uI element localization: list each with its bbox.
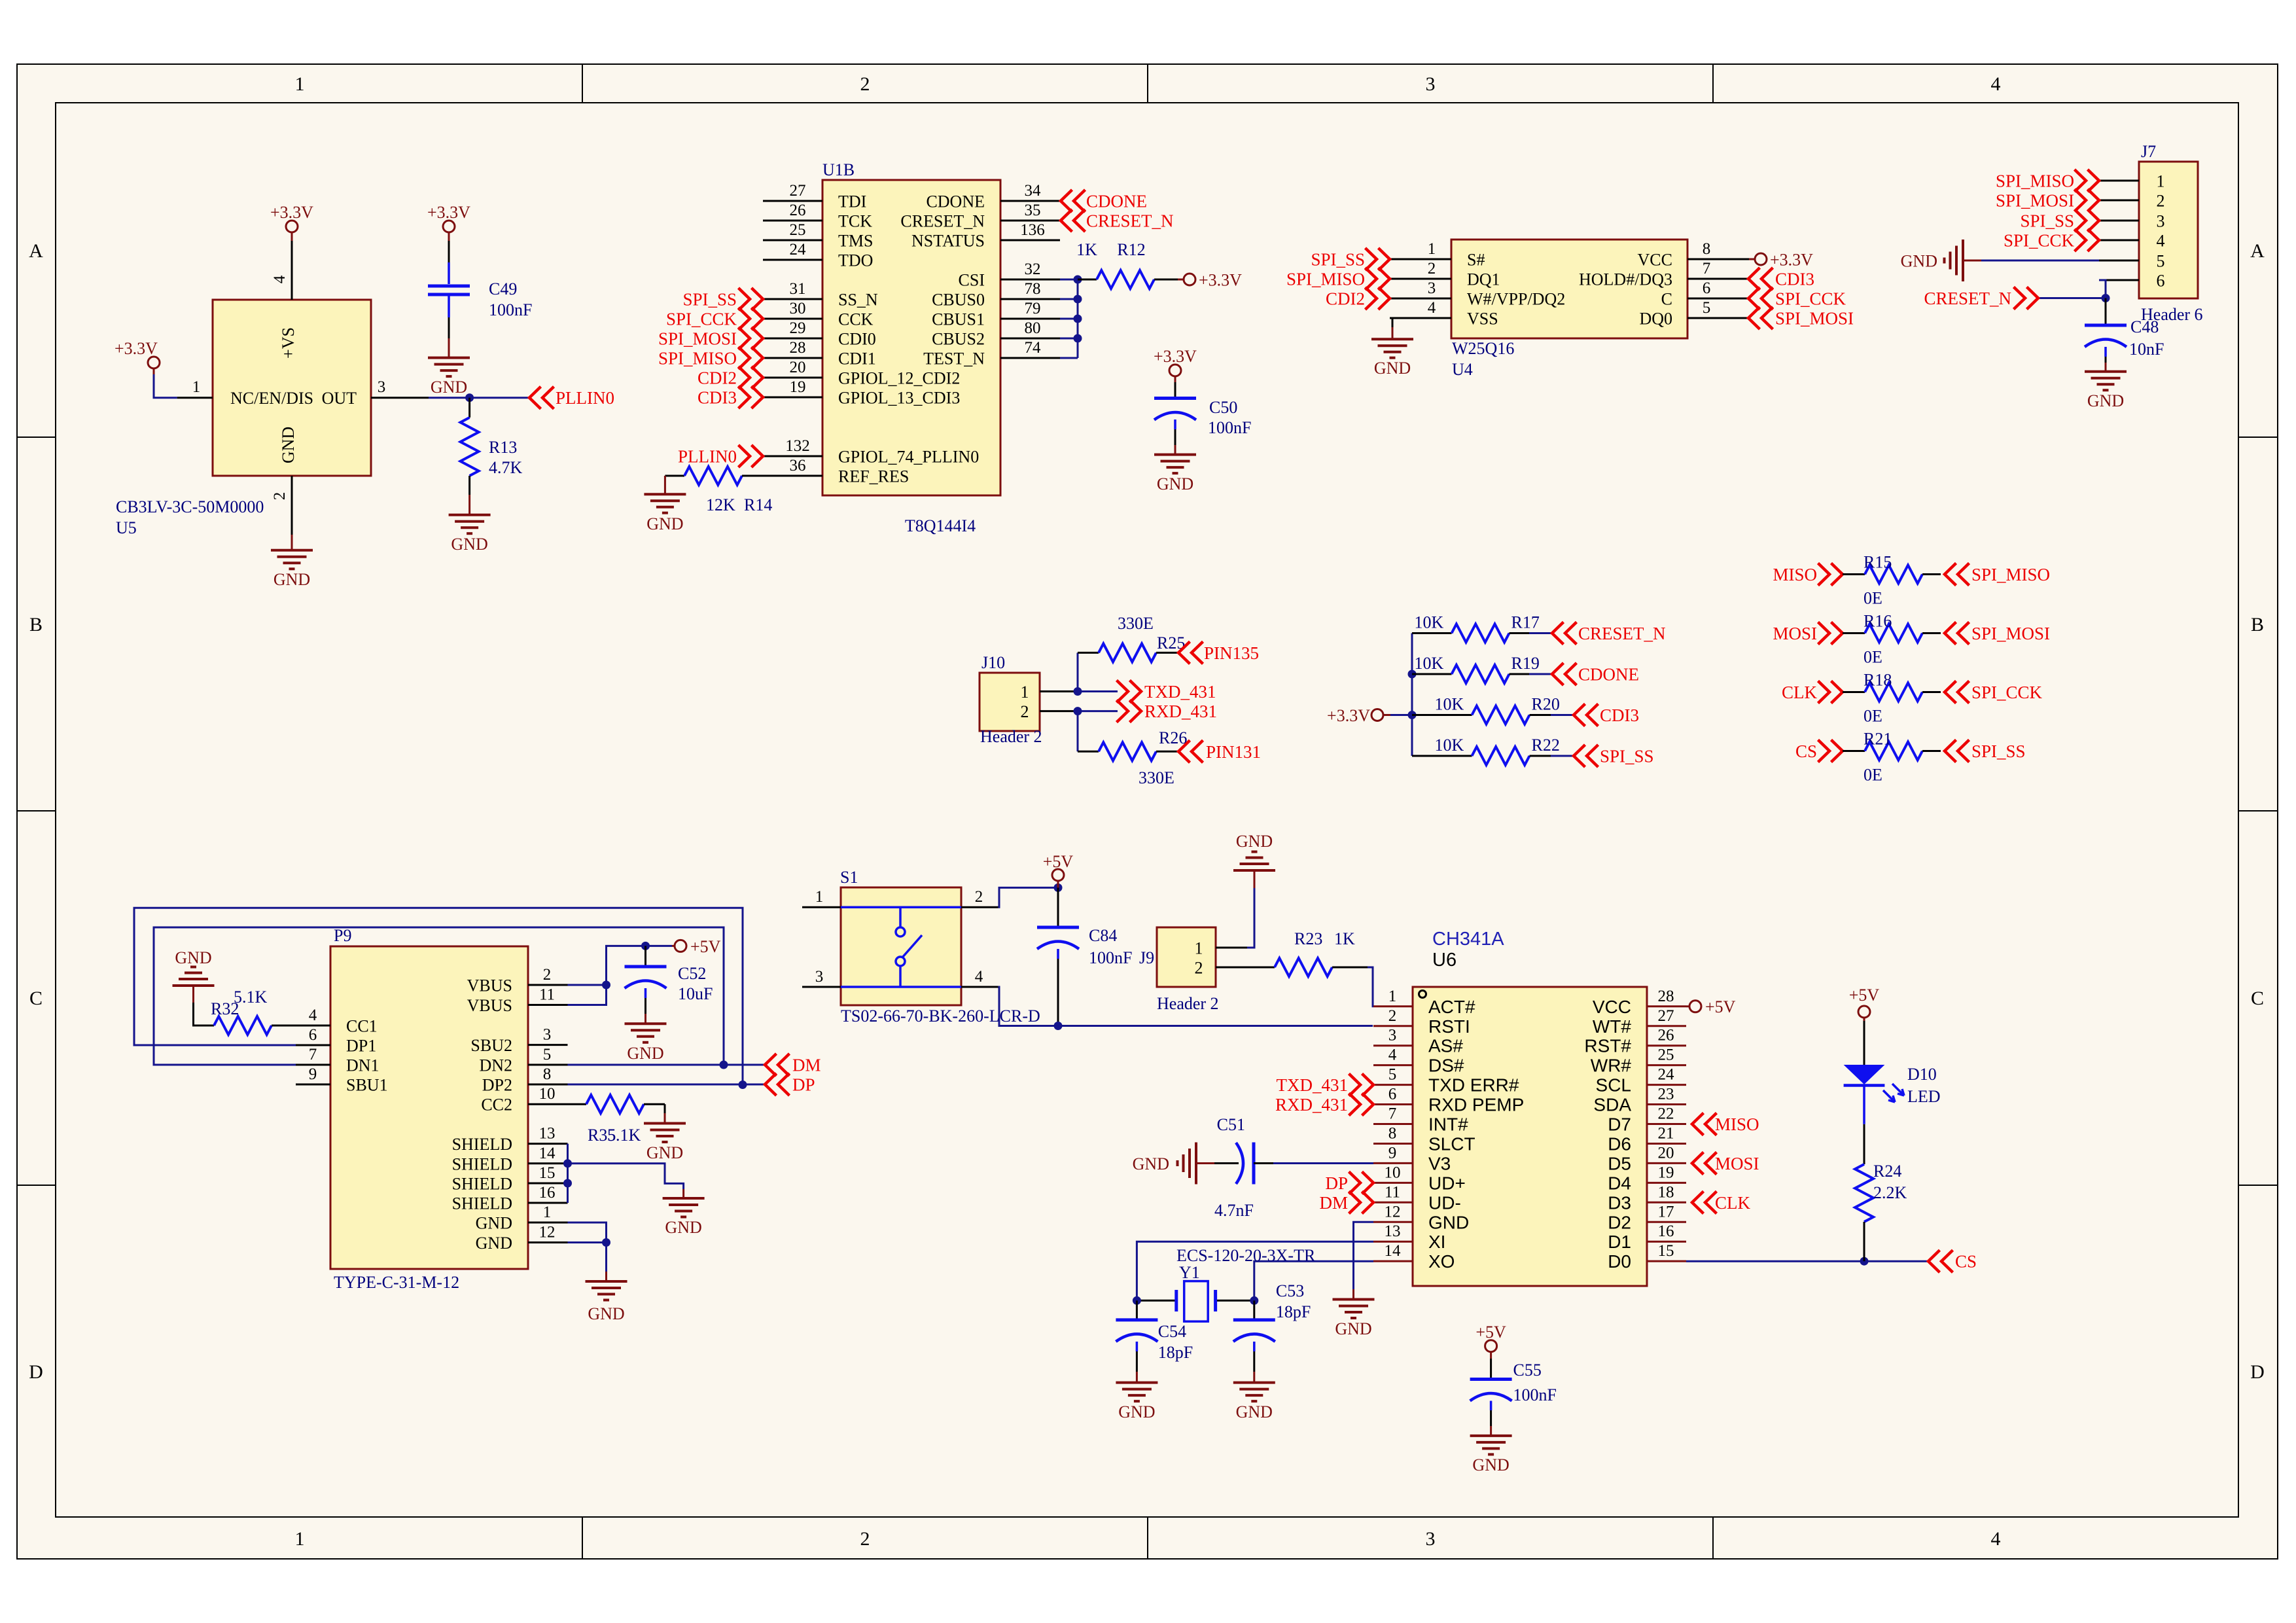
wire P9 GND pins: [568, 1222, 607, 1243]
svg-text:24: 24: [1658, 1066, 1675, 1084]
svg-text:10K: 10K: [1435, 736, 1464, 755]
svg-text:B: B: [29, 614, 43, 635]
J10 pin 2: [1040, 710, 1078, 712]
svg-text:1: 1: [1388, 988, 1397, 1005]
svg-text:+5V: +5V: [1475, 1323, 1506, 1342]
svg-text:GND: GND: [1118, 1402, 1155, 1421]
svg-text:3: 3: [378, 378, 386, 396]
wire +3.3V to U5 pin 1: [154, 374, 177, 398]
svg-text:GND: GND: [1428, 1212, 1469, 1232]
wire to RXD_431: [1078, 710, 1118, 712]
svg-text:100nF: 100nF: [1513, 1385, 1557, 1404]
svg-text:4: 4: [309, 1007, 317, 1024]
svg-text:CDONE: CDONE: [1578, 665, 1639, 685]
svg-text:GND: GND: [175, 948, 211, 967]
svg-text:330E: 330E: [1118, 614, 1154, 633]
svg-text:26: 26: [790, 202, 806, 219]
svg-text:SHIELD: SHIELD: [452, 1154, 512, 1173]
net flag RXD_431: [1117, 700, 1142, 722]
svg-text:2: 2: [975, 888, 983, 906]
U6 pin 4 DS#: [1373, 1064, 1413, 1066]
svg-text:B: B: [2251, 614, 2264, 635]
svg-text:R13: R13: [489, 438, 517, 457]
svg-text:R24: R24: [1873, 1162, 1901, 1181]
wire J10 pin1 to R25: [1077, 652, 1079, 691]
ground at R14: [664, 476, 666, 494]
svg-text:4: 4: [1428, 299, 1436, 317]
U4 pin 4 VSS: [1390, 317, 1451, 319]
svg-text:1: 1: [2157, 172, 2165, 191]
svg-text:74: 74: [1025, 339, 1042, 357]
svg-text:D3: D3: [1608, 1192, 1631, 1213]
svg-text:1: 1: [295, 73, 305, 95]
wire U6 GND pin 12: [1354, 1222, 1374, 1289]
svg-text:MOSI: MOSI: [1773, 624, 1817, 643]
svg-text:11: 11: [539, 986, 555, 1004]
svg-text:GND: GND: [646, 514, 683, 533]
svg-text:R15: R15: [1863, 553, 1892, 572]
svg-text:VBUS: VBUS: [467, 976, 512, 995]
ground above R32: [173, 984, 215, 987]
resistor R15: [1843, 573, 1865, 575]
svg-text:DN2: DN2: [479, 1056, 512, 1075]
svg-text:1K: 1K: [1076, 240, 1097, 259]
U6 pin 10 UD+: [1373, 1182, 1413, 1184]
svg-text:R22: R22: [1532, 736, 1560, 755]
svg-text:REF_RES: REF_RES: [838, 467, 909, 486]
svg-text:8: 8: [1703, 240, 1711, 258]
svg-text:GND: GND: [1236, 1402, 1273, 1421]
svg-text:36: 36: [790, 457, 806, 474]
net flag CDI2 at U1B pin 20: [739, 366, 764, 389]
svg-text:19: 19: [790, 378, 806, 396]
junction DM net: [720, 1061, 728, 1069]
svg-text:CDONE: CDONE: [926, 192, 985, 211]
J7 pin 2: [2099, 200, 2139, 202]
svg-text:AS#: AS#: [1428, 1036, 1463, 1056]
svg-text:CRESET_N: CRESET_N: [1578, 624, 1666, 643]
P9 pin 14 SHIELD: [528, 1162, 568, 1164]
svg-text:CRESET_N: CRESET_N: [1924, 289, 2011, 308]
svg-text:GND: GND: [431, 378, 467, 397]
wire DP1 wrap: [134, 908, 743, 1084]
svg-text:C: C: [1661, 290, 1672, 309]
U6 pin 21 D6: [1647, 1143, 1686, 1145]
svg-text:GPIOL_13_CDI3: GPIOL_13_CDI3: [838, 389, 960, 408]
svg-text:PLLIN0: PLLIN0: [556, 388, 614, 408]
ground at C53: [1253, 1372, 1255, 1382]
net flag SPI_MISO at U1B pin 28: [739, 347, 764, 369]
frame row ticks: [17, 437, 56, 438]
LED D10 arrows: [1883, 1090, 1895, 1102]
net flag TXD_431 at U6 pin 5: [1349, 1074, 1374, 1096]
svg-text:DQ1: DQ1: [1467, 270, 1500, 289]
net flag CRESET_N at J7: [2014, 287, 2039, 310]
svg-text:SPI_MOSI: SPI_MOSI: [1775, 309, 1854, 329]
svg-text:4: 4: [1991, 1528, 2001, 1550]
U1B pin 80 CBUS2: [1000, 338, 1060, 340]
svg-text:+3.3V: +3.3V: [115, 339, 158, 358]
net flag CS: [1818, 740, 1843, 762]
net flag MISO at U6 pin 22: [1692, 1113, 1717, 1135]
svg-text:D: D: [29, 1361, 43, 1383]
svg-text:132: 132: [785, 437, 810, 455]
svg-text:CC1: CC1: [346, 1017, 378, 1036]
resistor R19 10K: [1412, 673, 1452, 675]
U6 pin 20 D5: [1647, 1162, 1686, 1164]
svg-text:OUT: OUT: [322, 389, 357, 408]
svg-text:ECS-120-20-3X-TR: ECS-120-20-3X-TR: [1176, 1246, 1316, 1265]
net flag CRESET_N at R17: [1552, 622, 1577, 645]
svg-text:C50: C50: [1209, 398, 1237, 417]
net flag CDONE at R19: [1552, 663, 1577, 685]
svg-text:25: 25: [790, 221, 806, 239]
svg-text:CBUS1: CBUS1: [932, 310, 985, 329]
svg-text:CC2: CC2: [481, 1096, 512, 1115]
resistor R14: [665, 475, 684, 477]
wire GND to J7 pin 5: [1981, 260, 2099, 262]
svg-text:SPI_MOSI: SPI_MOSI: [658, 329, 737, 349]
svg-text:10: 10: [1385, 1164, 1401, 1181]
power +5V at VBUS: [672, 945, 675, 947]
svg-text:10K: 10K: [1415, 613, 1444, 632]
P9 pin 3 SBU2: [528, 1044, 568, 1046]
svg-text:GND: GND: [665, 1218, 701, 1237]
net flag DM at P9: [765, 1054, 790, 1076]
svg-text:U1B: U1B: [822, 160, 855, 179]
net flag DP at U6 pin 10: [1349, 1171, 1374, 1194]
svg-text:5: 5: [1703, 299, 1711, 317]
wire S1 pin 4 to U6 RSTI: [998, 987, 1373, 1026]
svg-text:GND: GND: [646, 1143, 683, 1162]
svg-text:RXD PEMP: RXD PEMP: [1428, 1095, 1524, 1115]
svg-text:100nF: 100nF: [489, 300, 532, 319]
ground at P9: [605, 1272, 607, 1281]
resistor R35 5.1K: [568, 1103, 587, 1105]
ground at C55: [1490, 1426, 1492, 1435]
svg-text:+5V: +5V: [1849, 986, 1880, 1005]
U6 pin 9 V3: [1373, 1162, 1413, 1164]
U1B pin 78 CBUS0: [1000, 298, 1060, 300]
net flag CLK at U6 pin 18: [1692, 1191, 1717, 1213]
net flag RXD_431 at U6 pin 6: [1349, 1094, 1374, 1116]
ground at R13: [468, 495, 470, 515]
J7 pin 6: [2099, 279, 2139, 281]
svg-text:SPI_CCK: SPI_CCK: [666, 310, 737, 329]
resistor R22 10K: [1412, 755, 1472, 757]
svg-text:CS: CS: [1795, 741, 1817, 761]
svg-text:1: 1: [295, 1528, 305, 1550]
svg-text:4: 4: [975, 968, 983, 986]
junction DP net: [739, 1080, 747, 1089]
net flag SPI_MOSI at J7 pin 2: [2075, 189, 2100, 211]
J7 pin 1: [2099, 180, 2139, 182]
net flag CDI3 at U4 pin 7: [1748, 268, 1773, 290]
wire J7 pin 6 to CRESET_N: [2099, 280, 2106, 298]
svg-text:10: 10: [539, 1085, 556, 1103]
S1 pin 1: [802, 906, 841, 908]
svg-text:DP: DP: [792, 1075, 815, 1095]
junction at PLLIN0 node: [465, 393, 474, 402]
svg-text:25: 25: [1658, 1046, 1674, 1064]
ground at C49: [448, 338, 450, 357]
junction C84 to RSTI wire: [1054, 1022, 1063, 1030]
svg-text:GND: GND: [1157, 474, 1193, 493]
svg-text:32: 32: [1025, 260, 1041, 278]
svg-text:XO: XO: [1428, 1251, 1455, 1272]
svg-text:2: 2: [1388, 1007, 1397, 1025]
U1B pin 30 CCK: [763, 318, 822, 320]
net flag SPI_CCK at R18: [1945, 681, 1969, 704]
ground at C54: [1136, 1372, 1138, 1382]
P9 pin 9 SBU1: [296, 1084, 330, 1086]
wire U6 XO to crystal: [1254, 1261, 1373, 1300]
resistor R32 5.1K: [192, 986, 194, 1003]
svg-text:100nF: 100nF: [1089, 948, 1132, 967]
power +3.3V at R12: [1178, 279, 1184, 281]
svg-text:MISO: MISO: [1715, 1115, 1759, 1134]
svg-text:+3.3V: +3.3V: [427, 203, 470, 222]
svg-text:INT#: INT#: [1428, 1115, 1468, 1135]
U4 pin 6 C: [1687, 298, 1749, 300]
svg-text:26: 26: [1658, 1027, 1674, 1044]
ground at C48: [2105, 363, 2107, 371]
net flag CDONE at U1B pin 34: [1061, 190, 1086, 212]
svg-text:4.7K: 4.7K: [489, 458, 523, 477]
net flag SPI_MOSI at U4 pin 5: [1748, 307, 1773, 329]
svg-text:SPI_SS: SPI_SS: [682, 290, 737, 310]
svg-text:12: 12: [539, 1224, 556, 1241]
svg-text:11: 11: [1385, 1183, 1400, 1201]
junction CSI: [1074, 276, 1082, 284]
U6 pin 28 VCC: [1647, 1005, 1686, 1007]
svg-text:PIN131: PIN131: [1206, 742, 1261, 762]
svg-text:SBU2: SBU2: [470, 1036, 512, 1055]
svg-text:V3: V3: [1428, 1153, 1451, 1173]
svg-text:1K: 1K: [1334, 929, 1355, 948]
U4 pin 5 DQ0: [1687, 317, 1749, 319]
svg-text:TS02-66-70-BK-260-LCR-D: TS02-66-70-BK-260-LCR-D: [841, 1007, 1040, 1026]
svg-text:CDI3: CDI3: [1600, 705, 1639, 725]
wire S1 pin 2 to +5V: [998, 887, 1058, 907]
U6 pin 6 RXD PEMP: [1373, 1103, 1413, 1105]
svg-text:RSTI: RSTI: [1428, 1016, 1470, 1037]
capacitor C50: [1169, 365, 1181, 376]
svg-text:2: 2: [1195, 959, 1203, 978]
svg-text:SPI_SS: SPI_SS: [1600, 747, 1654, 766]
flash U4 body: [1451, 240, 1687, 338]
net flag SPI_CCK at J7 pin 4: [2075, 229, 2100, 251]
P9 pin 5 DN2: [528, 1064, 568, 1066]
svg-text:1: 1: [1195, 939, 1203, 958]
junction P9 GND: [602, 1238, 610, 1247]
U5 pin 4: [291, 241, 293, 300]
svg-text:SPI_MISO: SPI_MISO: [1286, 270, 1365, 289]
junction +5V node: [1054, 883, 1063, 892]
J10 pin 1: [1040, 690, 1078, 692]
svg-text:LED: LED: [1907, 1087, 1941, 1106]
svg-text:2: 2: [860, 73, 870, 95]
svg-text:TXD_431: TXD_431: [1144, 682, 1216, 702]
oscillator U5 body: [213, 300, 371, 476]
J7 pin 4: [2099, 240, 2139, 241]
svg-text:15: 15: [1658, 1242, 1674, 1260]
U6 pin 17 D2: [1647, 1221, 1686, 1223]
svg-text:J7: J7: [2141, 142, 2156, 161]
svg-text:GND: GND: [1236, 832, 1273, 851]
svg-text:R14: R14: [744, 495, 772, 514]
ground at U4 pin 4: [1392, 327, 1394, 339]
svg-text:DN1: DN1: [346, 1056, 380, 1075]
FPGA U1B body: [822, 180, 1000, 495]
svg-text:5.1K: 5.1K: [607, 1126, 641, 1145]
net flag CDI2 at U4 pin 3: [1366, 287, 1390, 310]
U1B pin 132 GPIOL_74_PLLIN0: [763, 455, 822, 457]
svg-text:7: 7: [1703, 260, 1711, 277]
svg-text:R12: R12: [1117, 240, 1145, 259]
svg-text:CH341A: CH341A: [1432, 929, 1504, 950]
svg-text:SPI_MOSI: SPI_MOSI: [1996, 191, 2074, 211]
svg-text:R18: R18: [1863, 671, 1892, 690]
resistor R17 10K: [1412, 632, 1452, 634]
svg-text:HOLD#/DQ3: HOLD#/DQ3: [1579, 270, 1672, 289]
svg-text:17: 17: [1658, 1203, 1674, 1221]
net flag SPI_CCK at U4 pin 6: [1748, 287, 1773, 310]
svg-text:D1: D1: [1608, 1232, 1631, 1252]
junction D0/R24: [1860, 1257, 1869, 1266]
svg-text:35: 35: [1025, 202, 1041, 219]
U5 pin 1: [177, 397, 213, 399]
U4 pin 8 VCC: [1687, 259, 1749, 260]
svg-text:UD-: UD-: [1428, 1192, 1461, 1213]
svg-text:14: 14: [539, 1145, 556, 1162]
svg-text:DM: DM: [792, 1056, 821, 1075]
svg-text:Y1: Y1: [1179, 1263, 1200, 1282]
svg-text:SS_N: SS_N: [838, 291, 878, 310]
net flag PIN135: [1178, 641, 1203, 664]
connector P9 body: [330, 946, 528, 1269]
svg-text:16: 16: [1658, 1222, 1674, 1240]
ground at C52: [645, 1014, 646, 1024]
svg-text:29: 29: [790, 319, 806, 337]
svg-text:RST#: RST#: [1584, 1036, 1631, 1056]
svg-text:20: 20: [790, 359, 806, 376]
svg-text:12K: 12K: [706, 495, 735, 514]
header J9 body: [1157, 927, 1216, 987]
svg-text:+5V: +5V: [1705, 997, 1736, 1016]
resistor R12: [1078, 279, 1097, 281]
svg-text:24: 24: [790, 241, 807, 259]
svg-text:CDI2: CDI2: [698, 368, 737, 388]
U1B pin 19 GPIOL_13_CDI3: [763, 397, 822, 399]
svg-text:14: 14: [1385, 1242, 1402, 1260]
svg-text:Header 2: Header 2: [980, 727, 1042, 746]
svg-text:C49: C49: [489, 279, 517, 298]
svg-text:28: 28: [790, 339, 806, 357]
svg-text:GND: GND: [627, 1044, 663, 1063]
svg-text:VSS: VSS: [1467, 310, 1498, 329]
U6 pin 8 SLCT: [1373, 1143, 1413, 1145]
svg-text:SPI_SS: SPI_SS: [1311, 250, 1365, 270]
U6 pin 18 D3: [1647, 1202, 1686, 1204]
U1B pin 29 CDI0: [763, 338, 822, 340]
svg-text:0E: 0E: [1863, 766, 1882, 785]
svg-text:NC/EN/DIS: NC/EN/DIS: [230, 389, 313, 408]
svg-text:3: 3: [1426, 1528, 1436, 1550]
svg-text:+VS: +VS: [279, 327, 298, 359]
svg-text:4: 4: [2157, 232, 2165, 251]
wire R23 to U6 ACT#: [1368, 967, 1373, 1007]
resistor R16: [1843, 632, 1865, 634]
net flag CDI3 at U1B pin 19: [739, 386, 764, 408]
svg-text:R21: R21: [1863, 730, 1892, 749]
U1B pin 28 CDI1: [763, 357, 822, 359]
svg-text:SBU1: SBU1: [346, 1076, 388, 1095]
J7 pin 3: [2099, 220, 2139, 222]
P9 pin 1 GND: [528, 1222, 568, 1224]
ground at U6 pin 12: [1352, 1289, 1354, 1299]
svg-text:79: 79: [1025, 300, 1041, 317]
svg-text:RXD_431: RXD_431: [1275, 1095, 1348, 1115]
U1B pin 24 TDO: [763, 259, 822, 261]
U6 pin 19 D4: [1647, 1182, 1686, 1184]
svg-text:CBUS2: CBUS2: [932, 330, 985, 349]
svg-text:VCC: VCC: [1593, 997, 1631, 1017]
svg-text:A: A: [2250, 240, 2265, 262]
junction C52 tap: [641, 942, 650, 950]
svg-text:XI: XI: [1428, 1232, 1445, 1252]
svg-text:15: 15: [539, 1164, 556, 1182]
svg-text:CS: CS: [1955, 1252, 1977, 1272]
U4 pin 2 DQ1: [1390, 278, 1451, 280]
svg-text:W#/VPP/DQ2: W#/VPP/DQ2: [1467, 290, 1565, 309]
svg-text:CDI3: CDI3: [698, 388, 737, 408]
U6 pin 16 D1: [1647, 1241, 1686, 1243]
power +3.3V at U5 pin 4: [286, 221, 298, 232]
svg-text:SHIELD: SHIELD: [452, 1194, 512, 1213]
svg-text:TXD ERR#: TXD ERR#: [1428, 1075, 1519, 1096]
svg-text:SPI_MISO: SPI_MISO: [1971, 565, 2050, 584]
U6 pin 2 RSTI: [1373, 1025, 1413, 1027]
svg-text:TDI: TDI: [838, 192, 866, 211]
U1B pin 34 CDONE: [1000, 200, 1060, 202]
net flag CS: [1928, 1250, 1953, 1272]
power +3.3V at U5 pin 1: [148, 357, 160, 368]
svg-text:C84: C84: [1089, 926, 1117, 945]
svg-text:SDA: SDA: [1593, 1095, 1631, 1115]
U1B pin 26 TCK: [763, 220, 822, 222]
svg-text:S#: S#: [1467, 251, 1485, 270]
net flag DP at P9: [765, 1073, 790, 1096]
P9 pin 2 VBUS: [528, 984, 568, 986]
J7 pin 5: [2099, 260, 2139, 262]
svg-text:18pF: 18pF: [1158, 1343, 1193, 1362]
capacitor C84 100nF: [1057, 887, 1059, 926]
svg-text:CLK: CLK: [1782, 683, 1818, 702]
svg-text:GND: GND: [1133, 1154, 1169, 1173]
U6 pin 24 SCL: [1647, 1084, 1686, 1086]
svg-text:SPI_SS: SPI_SS: [2020, 211, 2074, 231]
svg-text:Header 2: Header 2: [1157, 994, 1219, 1013]
svg-text:23: 23: [1658, 1086, 1674, 1103]
svg-text:6: 6: [309, 1026, 317, 1044]
svg-text:330E: 330E: [1139, 768, 1174, 787]
P9 pin 16 SHIELD: [528, 1202, 568, 1204]
U4 pin 3 W#/VPP/DQ2: [1390, 298, 1451, 300]
U6 pin 23 SDA: [1647, 1103, 1686, 1105]
svg-text:0E: 0E: [1863, 648, 1882, 667]
power +5V at S1: [1052, 869, 1064, 881]
